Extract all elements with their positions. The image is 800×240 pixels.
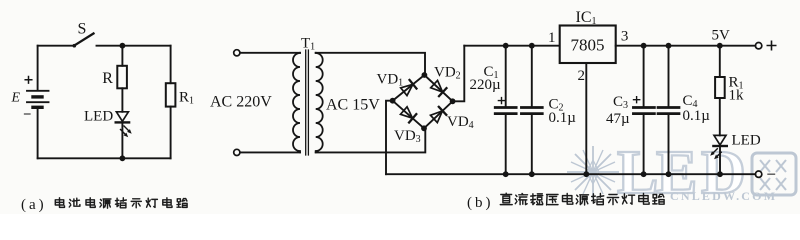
svg-text:47µ: 47µ bbox=[606, 111, 630, 127]
terminal: output plus bbox=[755, 43, 761, 49]
terminal: AC input bottom bbox=[234, 149, 240, 155]
wire: circuit a top rail right segment bbox=[97, 45, 171, 47]
node: ground junction C1 bbox=[503, 171, 509, 177]
wire: R1 branch top bbox=[719, 46, 721, 77]
capacitor C2 plates bbox=[521, 108, 542, 114]
resistor R1 body (circuit b) bbox=[715, 77, 725, 98]
caption (b) chinese text 直流稳压电源指示灯电路 bbox=[500, 193, 664, 205]
node: bridge right vertex bbox=[450, 98, 456, 104]
caption (a) chinese text 电池电源指示灯电路 bbox=[55, 198, 187, 208]
svg-text:CNLEDW.COM: CNLEDW.COM bbox=[670, 189, 777, 203]
svg-text:1: 1 bbox=[548, 30, 556, 46]
wire: DC top rail to IC pin1 bbox=[464, 45, 559, 47]
diode VD3 bbox=[400, 106, 416, 122]
transformer T1 core bbox=[306, 50, 309, 155]
svg-text:VD4: VD4 bbox=[447, 114, 474, 131]
capacitor C3 plus bbox=[634, 97, 640, 103]
svg-text:L: L bbox=[617, 139, 658, 207]
svg-text:AC 15V: AC 15V bbox=[326, 97, 380, 114]
capacitor C3 leads bbox=[643, 46, 645, 175]
node: ground junction C3 bbox=[641, 171, 647, 177]
battery E plate short thick bbox=[33, 95, 42, 98]
terminal: output minus bbox=[755, 171, 761, 177]
svg-text:VD2: VD2 bbox=[434, 64, 461, 81]
wire: bottom ground rail bbox=[386, 173, 755, 175]
capacitor C1 plus bbox=[498, 98, 504, 104]
capacitor C2 leads bbox=[531, 46, 533, 175]
battery E plate short thick 2 bbox=[33, 106, 42, 109]
watermark starburst icon bbox=[567, 146, 619, 198]
wire: secondary bottom to bridge bbox=[316, 128, 426, 152]
output minus sign bbox=[768, 173, 775, 175]
node: ground junction C2 bbox=[529, 171, 535, 177]
node: C1 top junction bbox=[503, 43, 509, 49]
svg-text:(b): (b) bbox=[467, 195, 494, 211]
svg-text:T1: T1 bbox=[301, 36, 315, 53]
wire: bridge right vertex to top rail bbox=[453, 46, 465, 102]
svg-text:IC1: IC1 bbox=[576, 9, 597, 27]
diode VD1 bbox=[400, 80, 416, 96]
LED light arrow 2 (circuit a) bbox=[121, 130, 127, 136]
LED cathode bar (circuit a) bbox=[116, 121, 129, 123]
LED diode triangle (circuit a) bbox=[116, 112, 128, 122]
LED light arrow 1 (circuit a) bbox=[124, 126, 130, 132]
output plus sign bbox=[767, 41, 775, 49]
wire: LED to bottom rail bbox=[121, 122, 123, 158]
svg-text:1k: 1k bbox=[729, 87, 745, 103]
transformer T1 secondary winding bbox=[316, 53, 323, 153]
terminal: AC input top bbox=[234, 50, 240, 56]
capacitor C1 leads bbox=[505, 46, 507, 175]
svg-text:LED: LED bbox=[84, 108, 113, 124]
LED cathode bar (circuit b) bbox=[713, 145, 726, 147]
battery plus sign bbox=[25, 77, 32, 84]
wire: IC pin2 to ground bbox=[585, 63, 587, 174]
switch S blade bbox=[74, 34, 94, 46]
node: ground junction pin2 bbox=[583, 171, 589, 177]
node: R1 top junction bbox=[717, 43, 723, 49]
battery E plate long top bbox=[27, 90, 49, 92]
node: ground junction C4 bbox=[666, 171, 672, 177]
node: C3 top junction bbox=[641, 43, 647, 49]
svg-text:(a): (a) bbox=[21, 197, 47, 213]
node: C4 top junction bbox=[666, 43, 672, 49]
watermark glyph 网 bbox=[752, 153, 796, 195]
svg-text:R1: R1 bbox=[179, 90, 194, 107]
wire: secondary top to bridge bbox=[316, 53, 425, 75]
capacitor C3 plates bbox=[633, 108, 654, 114]
wire: R1 to LED bbox=[719, 98, 721, 135]
node: bridge bottom vertex bbox=[421, 125, 427, 131]
wire: middle branch top bbox=[121, 46, 123, 66]
wire: circuit a bottom rail bbox=[38, 157, 171, 159]
wire: right branch bottom bbox=[170, 107, 172, 159]
LED light arrow 2 (circuit b) bbox=[716, 152, 721, 157]
wire: R to LED bbox=[121, 88, 123, 112]
svg-text:0.1µ: 0.1µ bbox=[683, 108, 711, 124]
svg-text:0.1µ: 0.1µ bbox=[549, 110, 577, 126]
svg-text:2: 2 bbox=[578, 68, 586, 84]
diode VD2 bbox=[430, 80, 446, 96]
LED diode triangle (circuit b) bbox=[714, 135, 726, 145]
diode VD4 bbox=[430, 107, 446, 123]
bridge diamond edges bbox=[393, 75, 453, 128]
wire: LED to ground rail bbox=[719, 146, 721, 174]
wire: left rail top (to battery) bbox=[37, 46, 39, 90]
svg-text:E: E bbox=[11, 90, 21, 105]
battery minus sign bbox=[25, 113, 31, 115]
capacitor C4 leads bbox=[668, 46, 670, 175]
svg-text:C3: C3 bbox=[613, 94, 628, 111]
svg-text:AC 220V: AC 220V bbox=[210, 93, 272, 110]
wire: circuit a top rail left segment bbox=[38, 45, 74, 47]
capacitor C4 plates bbox=[658, 108, 679, 114]
wire: bridge left vertex to ground rail bbox=[386, 101, 393, 175]
svg-text:R: R bbox=[102, 70, 113, 87]
wire: left rail bottom (battery to bottom) bbox=[37, 107, 39, 158]
svg-text:220µ: 220µ bbox=[470, 77, 502, 93]
node: top junction dot bbox=[120, 43, 126, 49]
wire: AC top to primary bbox=[240, 52, 300, 54]
svg-text:S: S bbox=[78, 20, 87, 37]
svg-text:VD3: VD3 bbox=[394, 128, 421, 145]
wire: right branch top bbox=[170, 46, 172, 83]
LED light arrow 1 (circuit b) bbox=[712, 149, 717, 154]
svg-text:VD1: VD1 bbox=[377, 71, 404, 88]
node: ground junction LED bbox=[717, 171, 723, 177]
battery E plate long bottom bbox=[27, 101, 49, 103]
switch S pivot dot bbox=[73, 44, 77, 48]
IC1 7805 box bbox=[560, 26, 616, 64]
wire: IC pin3 to output rail bbox=[616, 45, 756, 47]
resistor R body bbox=[117, 66, 127, 89]
svg-text:5V: 5V bbox=[712, 28, 731, 44]
svg-text:3: 3 bbox=[621, 28, 629, 44]
node: bridge top vertex bbox=[422, 72, 428, 78]
node: C2 top junction bbox=[529, 43, 535, 49]
transformer T1 primary winding bbox=[293, 53, 300, 153]
svg-text:7805: 7805 bbox=[571, 36, 605, 55]
resistor R1 body (circuit a) bbox=[166, 83, 176, 106]
node: bridge left vertex bbox=[390, 98, 396, 104]
wire: AC bottom to primary bbox=[240, 151, 300, 153]
svg-text:LED: LED bbox=[732, 133, 761, 149]
node: bottom junction dot bbox=[120, 155, 126, 161]
capacitor C1 plates bbox=[495, 108, 516, 114]
